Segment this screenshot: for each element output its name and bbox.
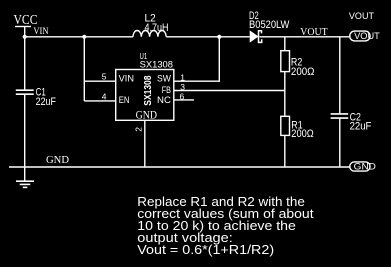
svg-text:2: 2	[134, 127, 144, 132]
wire NC stub	[174, 99, 194, 101]
wire C2 to ground wire	[339, 118, 341, 167]
power symbol VCC	[15, 27, 31, 38]
wire left vertical VCC node to C1	[24, 37, 26, 90]
svg-text:22uF: 22uF	[36, 96, 57, 108]
svg-text:22uF: 22uF	[350, 121, 372, 133]
node A junction	[23, 35, 27, 39]
diode D2 schottky cathode	[259, 30, 262, 43]
wire SW pin to node C	[174, 37, 220, 81]
svg-text:1: 1	[180, 72, 185, 82]
capacitor C2	[331, 114, 349, 118]
svg-text:NC: NC	[157, 95, 172, 105]
wire diode cathode to VOUT port	[260, 36, 350, 38]
svg-text:EN: EN	[119, 95, 130, 105]
wire ground bus	[9, 166, 350, 168]
wire top to R2	[284, 37, 286, 51]
wire inductor to diode	[166, 36, 250, 38]
svg-text:6: 6	[180, 91, 185, 101]
port VOUT	[350, 31, 370, 41]
svg-text:200Ω: 200Ω	[291, 128, 313, 140]
svg-text:GND: GND	[46, 155, 69, 166]
svg-text:VOUT: VOUT	[354, 31, 380, 41]
svg-text:SX1308: SX1308	[143, 75, 154, 106]
svg-text:GND: GND	[136, 110, 157, 122]
svg-text:SX1308: SX1308	[140, 60, 173, 71]
wire to pin 4 EN	[84, 100, 115, 102]
svg-text:5: 5	[102, 72, 107, 82]
svg-text:FB: FB	[162, 85, 171, 95]
svg-text:4: 4	[102, 91, 107, 101]
port GND	[350, 162, 370, 171]
svg-text:VOUT: VOUT	[349, 11, 374, 22]
wire C1 bottom to ground symbol	[24, 94, 26, 181]
node C junction	[217, 35, 221, 39]
inductor L2	[133, 30, 166, 36]
svg-text:4.7uH: 4.7uH	[145, 22, 169, 34]
wire top from VCC node to inductor	[25, 36, 133, 38]
svg-text:B0520LW: B0520LW	[249, 19, 290, 31]
svg-text:200Ω: 200Ω	[291, 66, 315, 78]
svg-text:SW: SW	[157, 74, 172, 84]
svg-text:VIN: VIN	[119, 74, 134, 84]
wire R1 to ground wire	[284, 135, 286, 167]
svg-text:GND: GND	[354, 162, 376, 173]
resistor R2	[281, 51, 290, 72]
svg-text:VOUT: VOUT	[300, 27, 327, 38]
wire vertical from node B down to pin 4	[83, 37, 85, 101]
wire R2 to R1	[284, 72, 286, 117]
capacitor C1	[16, 90, 34, 94]
op-amp U1 IC box	[116, 70, 174, 121]
node B junction	[82, 35, 86, 39]
diode D2 triangle	[250, 30, 259, 42]
wire pin 2 to ground	[144, 120, 146, 167]
svg-text:Vout = 0.6*(1+R1/R2): Vout = 0.6*(1+R1/R2)	[137, 242, 274, 257]
wire top to C2	[339, 37, 341, 114]
wire FB pin to R1/R2 junction	[174, 90, 285, 92]
resistor R1	[281, 116, 290, 135]
ground symbol	[16, 181, 34, 187]
svg-text:VIN: VIN	[33, 26, 48, 37]
wire to pin 5 VIN	[84, 80, 115, 82]
